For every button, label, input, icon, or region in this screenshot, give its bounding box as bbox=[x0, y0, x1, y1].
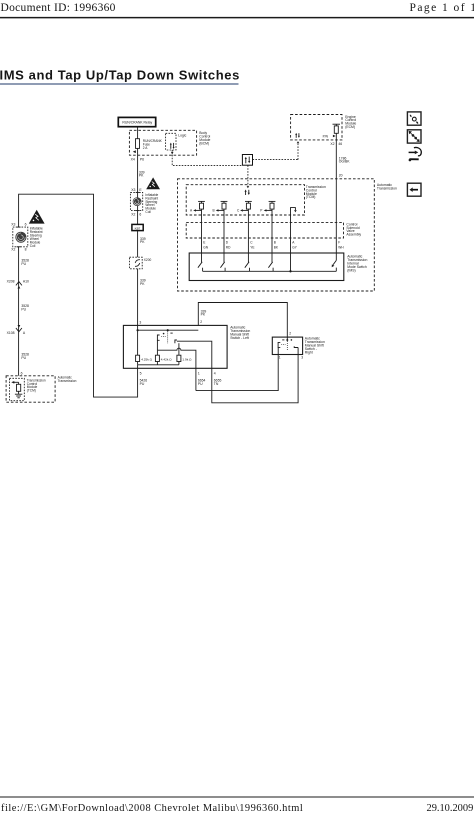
svg-text:PU: PU bbox=[21, 356, 26, 360]
wire label 339 PK (above coil) bbox=[139, 170, 145, 177]
resistor 4.25k bbox=[136, 330, 153, 361]
Automatic Transmission outer dashed box bbox=[178, 179, 375, 291]
TCM pull-up resistor + input arrow, pin P wire (BK) bbox=[260, 201, 275, 262]
junction dot rail/GY wire bbox=[289, 270, 291, 272]
svg-text:4: 4 bbox=[214, 372, 216, 376]
svg-text:(BCM): (BCM) bbox=[199, 141, 209, 145]
icon: zoom view bbox=[407, 112, 421, 125]
svg-text:1.9k Ω: 1.9k Ω bbox=[182, 357, 192, 361]
svg-text:8: 8 bbox=[25, 248, 27, 252]
inline connector X108 pin A bbox=[7, 325, 26, 335]
label: Inflatable Restraint Steering Wheel Module Coil (left) bbox=[30, 226, 43, 248]
solenoid assembly pin letters and wire colors bbox=[203, 240, 344, 249]
label: Transmission Control Module (TCM) bottom bbox=[27, 378, 46, 392]
svg-text:TN: TN bbox=[214, 382, 219, 386]
svg-text:2: 2 bbox=[200, 320, 202, 324]
wire: 6654 PU to right switch pin 1 bbox=[196, 355, 278, 391]
svg-text:X3: X3 bbox=[11, 222, 15, 226]
connector pins X3 / 6 (left coil) bbox=[11, 222, 26, 226]
label: Control Solenoid Valve Assembly bbox=[346, 222, 361, 236]
wire label 339 PK (below X200) bbox=[140, 279, 146, 286]
svg-text:Transmission: Transmission bbox=[58, 379, 77, 383]
svg-text:Logic: Logic bbox=[178, 133, 186, 137]
IMS switch contact E bbox=[198, 262, 203, 272]
svg-text:file://E:\GM\ForDownload\2008: file://E:\GM\ForDownload\2008 Chevrolet … bbox=[1, 803, 303, 814]
icon: jump arrow bbox=[409, 147, 422, 161]
TCM pull-up resistor + input arrow, pin B wire (RD) bbox=[213, 201, 228, 262]
TCM dashed box (bottom left) bbox=[6, 376, 55, 402]
IMS solid box bbox=[189, 253, 344, 281]
serial data dashed line junction box to ECM bbox=[253, 141, 300, 160]
svg-text:IMS and Tap Up/Tap Down Switch: IMS and Tap Up/Tap Down Switches bbox=[0, 68, 240, 83]
right switch pin labels bbox=[279, 331, 303, 359]
connector pins X3 / E bbox=[131, 188, 142, 192]
svg-text:Document ID: 1996360: Document ID: 1996360 bbox=[1, 2, 116, 14]
ground (TCM internal) bbox=[15, 394, 22, 398]
IMS common rail bbox=[203, 270, 337, 272]
svg-text:P: P bbox=[260, 209, 262, 213]
right switch tap contact 2 bbox=[294, 346, 298, 354]
TCM pull-up resistor + input arrow, pin C wire (YE) bbox=[237, 201, 252, 262]
svg-text:KB7: KB7 bbox=[135, 227, 141, 231]
BCM dashed box bbox=[129, 130, 196, 155]
pin labels X2 / 46 bbox=[330, 142, 342, 146]
TCM sense resistor bbox=[17, 382, 21, 394]
svg-text:X2: X2 bbox=[11, 248, 15, 252]
svg-text:Page 1 of 1: Page 1 of 1 bbox=[410, 2, 474, 14]
serial data dashed line junction box to TCM bbox=[247, 165, 250, 188]
pin labels 5, 1, 4 bbox=[140, 372, 216, 376]
ECM dashed box bbox=[291, 115, 342, 140]
label: Automatic Transmission Manual Shift Switch - Left bbox=[230, 325, 250, 340]
svg-text:PU: PU bbox=[198, 382, 203, 386]
wire label 1786 OG/BK bbox=[339, 156, 350, 163]
label: Body Control Module (BCM) bbox=[199, 131, 210, 145]
left switch tap-up contact bbox=[175, 340, 212, 368]
svg-text:B: B bbox=[274, 240, 276, 244]
internal rail to pin 1 with wire hop bbox=[157, 348, 196, 368]
logic box inside BCM bbox=[166, 133, 187, 150]
inline connector X200 bbox=[130, 257, 152, 269]
icon: back arrow bbox=[407, 183, 421, 196]
svg-text:20: 20 bbox=[339, 174, 343, 178]
wire label 339 PK (link) bbox=[201, 309, 207, 316]
connector pins X2 / 8 (left coil) bbox=[11, 248, 26, 252]
svg-text:PK: PK bbox=[139, 174, 144, 178]
svg-text:Coil: Coil bbox=[30, 244, 36, 248]
svg-text:Coil: Coil bbox=[145, 210, 151, 214]
TCM output drive, pin A wire (GY) with down arrow bbox=[291, 208, 297, 272]
svg-text:F: F bbox=[338, 240, 340, 244]
left switch tap-down contact bbox=[157, 335, 166, 350]
svg-text:PK: PK bbox=[140, 282, 145, 286]
svg-text:A10: A10 bbox=[23, 279, 29, 283]
wire: 1786 OG/BK from ECM pin 46 to pin F bbox=[335, 133, 337, 260]
TCM serial data arrows bbox=[245, 190, 250, 196]
option code box KB7 bbox=[132, 224, 143, 230]
svg-text:6: 6 bbox=[139, 212, 141, 216]
svg-text:E: E bbox=[203, 240, 205, 244]
ECM serial data arrows bbox=[295, 133, 300, 138]
svg-text:PU: PU bbox=[21, 308, 26, 312]
IMS switch contact D bbox=[220, 262, 225, 272]
wire label 339 PK (below KB7) bbox=[140, 237, 146, 244]
icon: resize view bbox=[407, 130, 421, 143]
serial data dashed line BCM logic to junction box bbox=[171, 150, 243, 166]
IMS switch contact C bbox=[245, 262, 250, 272]
wire label 3528 PU (lower) bbox=[21, 352, 29, 359]
right switch tap contact 1 bbox=[278, 342, 285, 354]
svg-text:PU: PU bbox=[140, 382, 145, 386]
title underline bbox=[0, 83, 239, 85]
label P/N with arrow bbox=[323, 134, 336, 138]
wire label 3528 PU (upper) bbox=[21, 259, 29, 266]
svg-text:X2: X2 bbox=[330, 142, 334, 146]
svg-text:WH: WH bbox=[338, 245, 344, 249]
wire: continues below coil to TCM bbox=[18, 247, 20, 376]
svg-text:Right: Right bbox=[305, 350, 313, 354]
svg-text:5: 5 bbox=[140, 372, 142, 376]
label: Automatic Transmission (bottom left) bbox=[58, 376, 77, 383]
manual shift switch left box bbox=[123, 325, 227, 368]
left switch wiper with marks bbox=[163, 329, 173, 344]
label: Transmission Control Module (TCM) bbox=[306, 185, 326, 199]
label: Automatic Transmission Internal Mode Switch (IMS) bbox=[347, 254, 367, 272]
label: Engine Control Module (ECM) bbox=[345, 115, 356, 129]
IMS switch contact B bbox=[268, 262, 273, 272]
inflatable restraint steering wheel module coil (5426/3528 pass-through) bbox=[13, 227, 28, 247]
svg-text:6: 6 bbox=[25, 222, 27, 226]
fuse F1: RUN/CRANK Fuse 2A bbox=[136, 139, 163, 150]
svg-text:P/N: P/N bbox=[323, 134, 329, 138]
svg-text:(TCM): (TCM) bbox=[306, 195, 316, 199]
svg-text:GN: GN bbox=[203, 245, 208, 249]
svg-text:3: 3 bbox=[139, 320, 141, 324]
svg-text:P6: P6 bbox=[140, 157, 144, 161]
wire labels 5426 PU / 6654 PU / 6655 TN bbox=[140, 378, 222, 385]
TCM inner function dashed box bbox=[10, 378, 25, 400]
TCM dashed box (middle) bbox=[186, 185, 304, 215]
svg-text:RD: RD bbox=[226, 245, 231, 249]
SIR warning triangle (left coil) bbox=[29, 210, 45, 224]
wire label 3528 PU (middle) bbox=[21, 304, 29, 311]
svg-text:PK: PK bbox=[140, 240, 145, 244]
svg-text:1: 1 bbox=[279, 356, 281, 360]
svg-text:4.25k Ω: 4.25k Ω bbox=[141, 357, 152, 361]
label: Inflatable Restraint Steering Wheel Module Coil bbox=[145, 193, 158, 214]
svg-text:X208: X208 bbox=[7, 279, 15, 283]
label: Automatic Transmission Manual Shift Switch - Right bbox=[305, 336, 325, 354]
svg-text:PK: PK bbox=[201, 313, 206, 317]
connector pins X2 / 6 bbox=[131, 212, 141, 216]
inflatable restraint steering wheel module coil (339 PK pass-through) bbox=[130, 192, 142, 210]
footer rule bbox=[0, 796, 474, 798]
svg-text:B: B bbox=[213, 209, 215, 213]
inline connector X208 pin A10 bbox=[7, 279, 29, 288]
svg-text:X200: X200 bbox=[144, 258, 152, 262]
SIR warning triangle (at coil, steering wheel) bbox=[146, 177, 160, 189]
control solenoid valve assembly dashed box bbox=[186, 222, 343, 238]
pin labels X4 / P6 bbox=[131, 157, 145, 161]
svg-text:X3: X3 bbox=[131, 188, 135, 192]
svg-text:Assembly: Assembly bbox=[346, 233, 361, 237]
svg-text:3: 3 bbox=[301, 356, 303, 360]
wire: 339 PK feed from RUN/CRANK relay down through fuse, coil, to switch pin 3 bbox=[137, 127, 139, 330]
ECM internal pull-up resistor bbox=[333, 124, 341, 133]
svg-text:(TCM): (TCM) bbox=[27, 389, 36, 393]
arrow: fuse output direction bbox=[133, 150, 136, 153]
svg-text:(ECM): (ECM) bbox=[345, 125, 355, 129]
svg-text:X4: X4 bbox=[131, 157, 135, 161]
wire: 5426 PU from switch pin 5 via clockspring route bbox=[19, 194, 138, 397]
resistor 4.42k bbox=[155, 350, 172, 361]
svg-text:X108: X108 bbox=[7, 331, 15, 335]
wire: 339 PK link to right switch bbox=[198, 303, 287, 338]
serial data junction box bbox=[242, 155, 252, 166]
svg-text:Transmission: Transmission bbox=[377, 186, 397, 190]
svg-text:1: 1 bbox=[198, 372, 200, 376]
svg-text:RUN/CRANK Relay: RUN/CRANK Relay bbox=[122, 120, 152, 124]
svg-text:2: 2 bbox=[289, 331, 291, 335]
svg-text:YE: YE bbox=[250, 245, 254, 249]
svg-text:29.10.2009: 29.10.2009 bbox=[427, 803, 474, 814]
svg-text:PU: PU bbox=[21, 262, 26, 266]
header rule bbox=[0, 17, 474, 19]
IMS contact F with arrow blade bbox=[332, 260, 337, 271]
resistor 1.9k bbox=[177, 355, 192, 361]
svg-text:46: 46 bbox=[338, 142, 342, 146]
svg-text:OG/BK: OG/BK bbox=[339, 160, 350, 164]
left switch internal feed rail bbox=[137, 329, 199, 331]
TCM input arrow bbox=[11, 381, 18, 384]
label: Automatic Transmission (top right) bbox=[377, 183, 397, 190]
manual shift switch right box bbox=[272, 337, 302, 354]
wire: 6655 TN to right switch pin 3 bbox=[212, 355, 298, 403]
resistor bottom rail bbox=[138, 362, 179, 369]
TCM pull-up resistor + input arrow, pin A wire (GN) bbox=[190, 201, 205, 262]
svg-text:6: 6 bbox=[21, 371, 23, 375]
svg-text:4.42k Ω: 4.42k Ω bbox=[161, 357, 172, 361]
svg-text:Switch - Left: Switch - Left bbox=[230, 336, 249, 340]
relay label box: RUN/CRANK Relay bbox=[118, 117, 155, 126]
svg-text:X2: X2 bbox=[131, 212, 135, 216]
svg-text:(IMS): (IMS) bbox=[347, 268, 355, 272]
right switch wiper with marks bbox=[282, 337, 292, 350]
